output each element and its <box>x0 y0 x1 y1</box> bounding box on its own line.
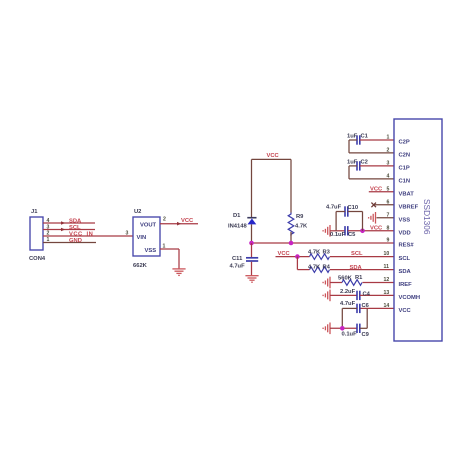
svg-text:14: 14 <box>384 303 390 309</box>
svg-text:1: 1 <box>47 237 50 243</box>
svg-text:1uF: 1uF <box>347 134 358 140</box>
svg-text:C10: C10 <box>348 205 359 211</box>
svg-text:9: 9 <box>387 238 390 244</box>
svg-text:13: 13 <box>384 290 390 296</box>
svg-text:D1: D1 <box>233 213 241 219</box>
svg-text:1uF: 1uF <box>347 160 358 166</box>
svg-text:2.2uF: 2.2uF <box>340 289 356 295</box>
svg-text:4.7K: 4.7K <box>308 264 321 270</box>
svg-text:VCC: VCC <box>267 153 280 159</box>
svg-text:1: 1 <box>387 135 390 141</box>
svg-text:R1: R1 <box>355 275 363 281</box>
svg-text:VDD: VDD <box>399 230 411 236</box>
svg-text:3: 3 <box>126 230 129 236</box>
svg-text:6: 6 <box>387 199 390 205</box>
svg-text:VOUT: VOUT <box>140 222 157 228</box>
svg-text:662K: 662K <box>133 263 148 269</box>
svg-text:SDA: SDA <box>350 265 363 271</box>
svg-text:10: 10 <box>384 251 390 257</box>
svg-text:0.1uF: 0.1uF <box>342 331 358 337</box>
svg-text:4.7K: 4.7K <box>308 249 321 255</box>
svg-text:4.7K: 4.7K <box>295 223 308 229</box>
svg-text:C6: C6 <box>362 303 370 309</box>
svg-text:0.1uF: 0.1uF <box>330 232 346 238</box>
svg-text:C2N: C2N <box>399 152 411 158</box>
svg-text:C9: C9 <box>362 332 370 338</box>
svg-text:VSS: VSS <box>399 217 411 223</box>
svg-text:11: 11 <box>384 264 390 270</box>
svg-text:VBREF: VBREF <box>399 204 419 210</box>
svg-text:4: 4 <box>47 218 50 224</box>
svg-text:12: 12 <box>384 277 390 283</box>
svg-text:8: 8 <box>387 225 390 231</box>
svg-text:VCC_IN: VCC_IN <box>69 231 93 237</box>
svg-text:R9: R9 <box>296 214 304 220</box>
svg-text:SSD1306: SSD1306 <box>422 199 432 235</box>
svg-text:GND: GND <box>69 238 82 244</box>
svg-text:VCC: VCC <box>181 218 194 224</box>
svg-text:VCC: VCC <box>370 226 383 232</box>
svg-text:C2: C2 <box>361 160 368 166</box>
svg-text:VCOMH: VCOMH <box>399 295 421 301</box>
svg-text:3: 3 <box>387 160 390 166</box>
svg-text:RES#: RES# <box>399 243 415 249</box>
svg-text:SCL: SCL <box>69 225 81 231</box>
svg-text:SDA: SDA <box>399 269 412 275</box>
svg-text:C5: C5 <box>348 232 356 238</box>
svg-text:4.7uF: 4.7uF <box>340 301 356 307</box>
svg-text:R4: R4 <box>323 264 331 270</box>
svg-text:560K: 560K <box>338 275 353 281</box>
svg-text:U2: U2 <box>134 209 141 215</box>
svg-text:R3: R3 <box>323 249 331 255</box>
svg-text:CON4: CON4 <box>29 256 46 262</box>
svg-text:IN4148: IN4148 <box>228 224 247 230</box>
svg-text:IREF: IREF <box>399 282 413 288</box>
svg-text:SCL: SCL <box>351 251 363 257</box>
svg-text:4.7uF: 4.7uF <box>230 263 246 269</box>
svg-text:VIN: VIN <box>137 235 147 241</box>
svg-text:VCC: VCC <box>370 187 383 193</box>
svg-text:C11: C11 <box>232 256 243 262</box>
svg-text:4: 4 <box>387 173 390 179</box>
svg-text:VBAT: VBAT <box>399 191 415 197</box>
svg-text:C2P: C2P <box>399 140 410 146</box>
svg-text:C1P: C1P <box>399 165 410 171</box>
svg-text:C1N: C1N <box>399 178 411 184</box>
svg-text:5: 5 <box>387 186 390 192</box>
svg-text:C1: C1 <box>361 134 369 140</box>
svg-text:SCL: SCL <box>399 256 411 262</box>
svg-text:2: 2 <box>387 147 390 153</box>
svg-text:4.7uF: 4.7uF <box>326 205 342 211</box>
svg-text:VCC: VCC <box>399 308 412 314</box>
svg-text:2: 2 <box>47 231 50 237</box>
svg-text:C4: C4 <box>363 292 371 298</box>
svg-text:7: 7 <box>387 212 390 218</box>
svg-text:J1: J1 <box>31 209 38 215</box>
svg-text:2: 2 <box>163 216 166 222</box>
svg-text:VSS: VSS <box>145 248 157 254</box>
svg-text:SDA: SDA <box>69 218 82 224</box>
